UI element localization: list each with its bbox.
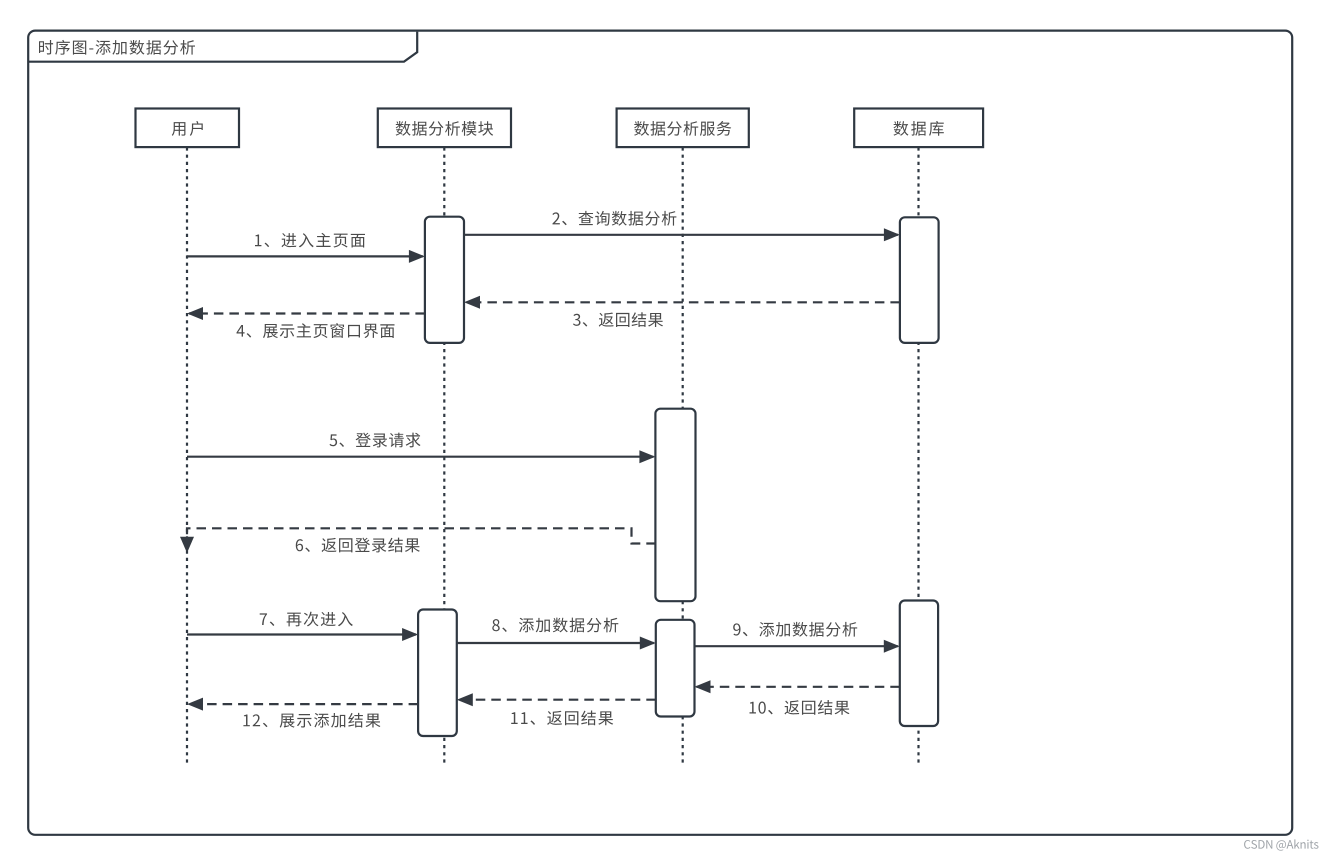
- message 7 label: [260, 612, 353, 627]
- message 4 return arrow 展示主页窗口界面: [187, 307, 425, 320]
- activation 数据库 #2: [900, 601, 938, 727]
- lifeline 数据分析服务: [682, 147, 684, 763]
- message 9 label: [733, 622, 857, 637]
- message 5 arrow 登录请求: [187, 450, 655, 463]
- message 4 label: [237, 323, 395, 338]
- activation 数据分析服务 #1: [655, 409, 695, 602]
- activation 数据分析模块 #2: [418, 610, 457, 737]
- activation 数据分析服务 #2: [656, 620, 695, 717]
- activation 数据分析模块 #1: [425, 217, 464, 343]
- lifeline 数据库: [917, 147, 919, 763]
- message 6 label: [296, 538, 420, 553]
- activation 数据库 #1: [900, 217, 939, 343]
- actor box 用户: [136, 109, 240, 148]
- message 6 return arrow 返回登录结果 (orthogonal route): [180, 528, 656, 553]
- message 1 arrow 进入主页面: [187, 250, 425, 263]
- message 11 label: [511, 711, 613, 726]
- message 9 arrow 添加数据分析: [695, 640, 900, 653]
- lifeline 数据分析模块: [443, 147, 445, 763]
- frame title text 时序图-添加数据分析: [39, 40, 195, 55]
- watermark CSDN @Aknits: [1244, 839, 1318, 850]
- message 10 label: [749, 700, 849, 715]
- lifeline 用户: [186, 147, 188, 763]
- message 3 return arrow 返回结果: [464, 296, 900, 309]
- frame title pentagon: [28, 32, 417, 62]
- message 3 label: [573, 312, 663, 327]
- actor box 数据分析服务: [617, 109, 749, 148]
- actor box 数据分析模块: [378, 109, 511, 148]
- message 1 label: [255, 233, 365, 248]
- message 11 return arrow 返回结果: [457, 693, 656, 706]
- message 5 label: [330, 433, 421, 448]
- message 10 return arrow 返回结果: [695, 680, 900, 693]
- message 8 arrow 添加数据分析: [457, 637, 656, 650]
- message 2 label: [552, 211, 676, 226]
- message 12 label: [243, 713, 380, 728]
- message 7 arrow 再次进入: [187, 628, 418, 641]
- actor box 数据库: [854, 109, 983, 148]
- message 12 return arrow 展示添加结果: [187, 698, 418, 711]
- message 2 arrow 查询数据分析: [464, 228, 900, 241]
- message 8 label: [492, 618, 618, 633]
